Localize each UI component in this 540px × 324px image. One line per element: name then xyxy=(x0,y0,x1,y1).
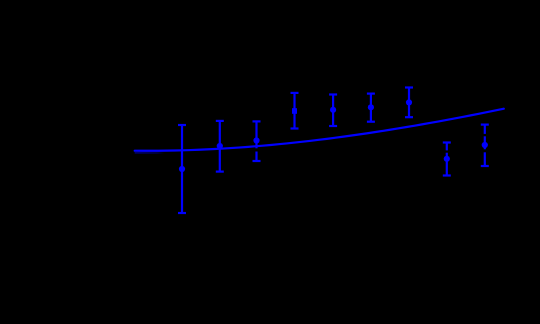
data point 1 xyxy=(178,125,186,213)
data point 4 xyxy=(291,93,299,129)
fit curve xyxy=(135,109,504,151)
data point 3 (gap in bar below curve) xyxy=(253,121,261,161)
data point 6 xyxy=(367,94,375,122)
faint secondary line segment at curve start xyxy=(135,152,165,154)
data point 9 (gaps above and below marker) xyxy=(481,125,489,166)
data point 2 xyxy=(216,121,224,172)
data point 5 xyxy=(329,95,337,127)
data point 7 xyxy=(405,88,413,118)
data point 8 (gap in bar above marker) xyxy=(443,143,451,176)
